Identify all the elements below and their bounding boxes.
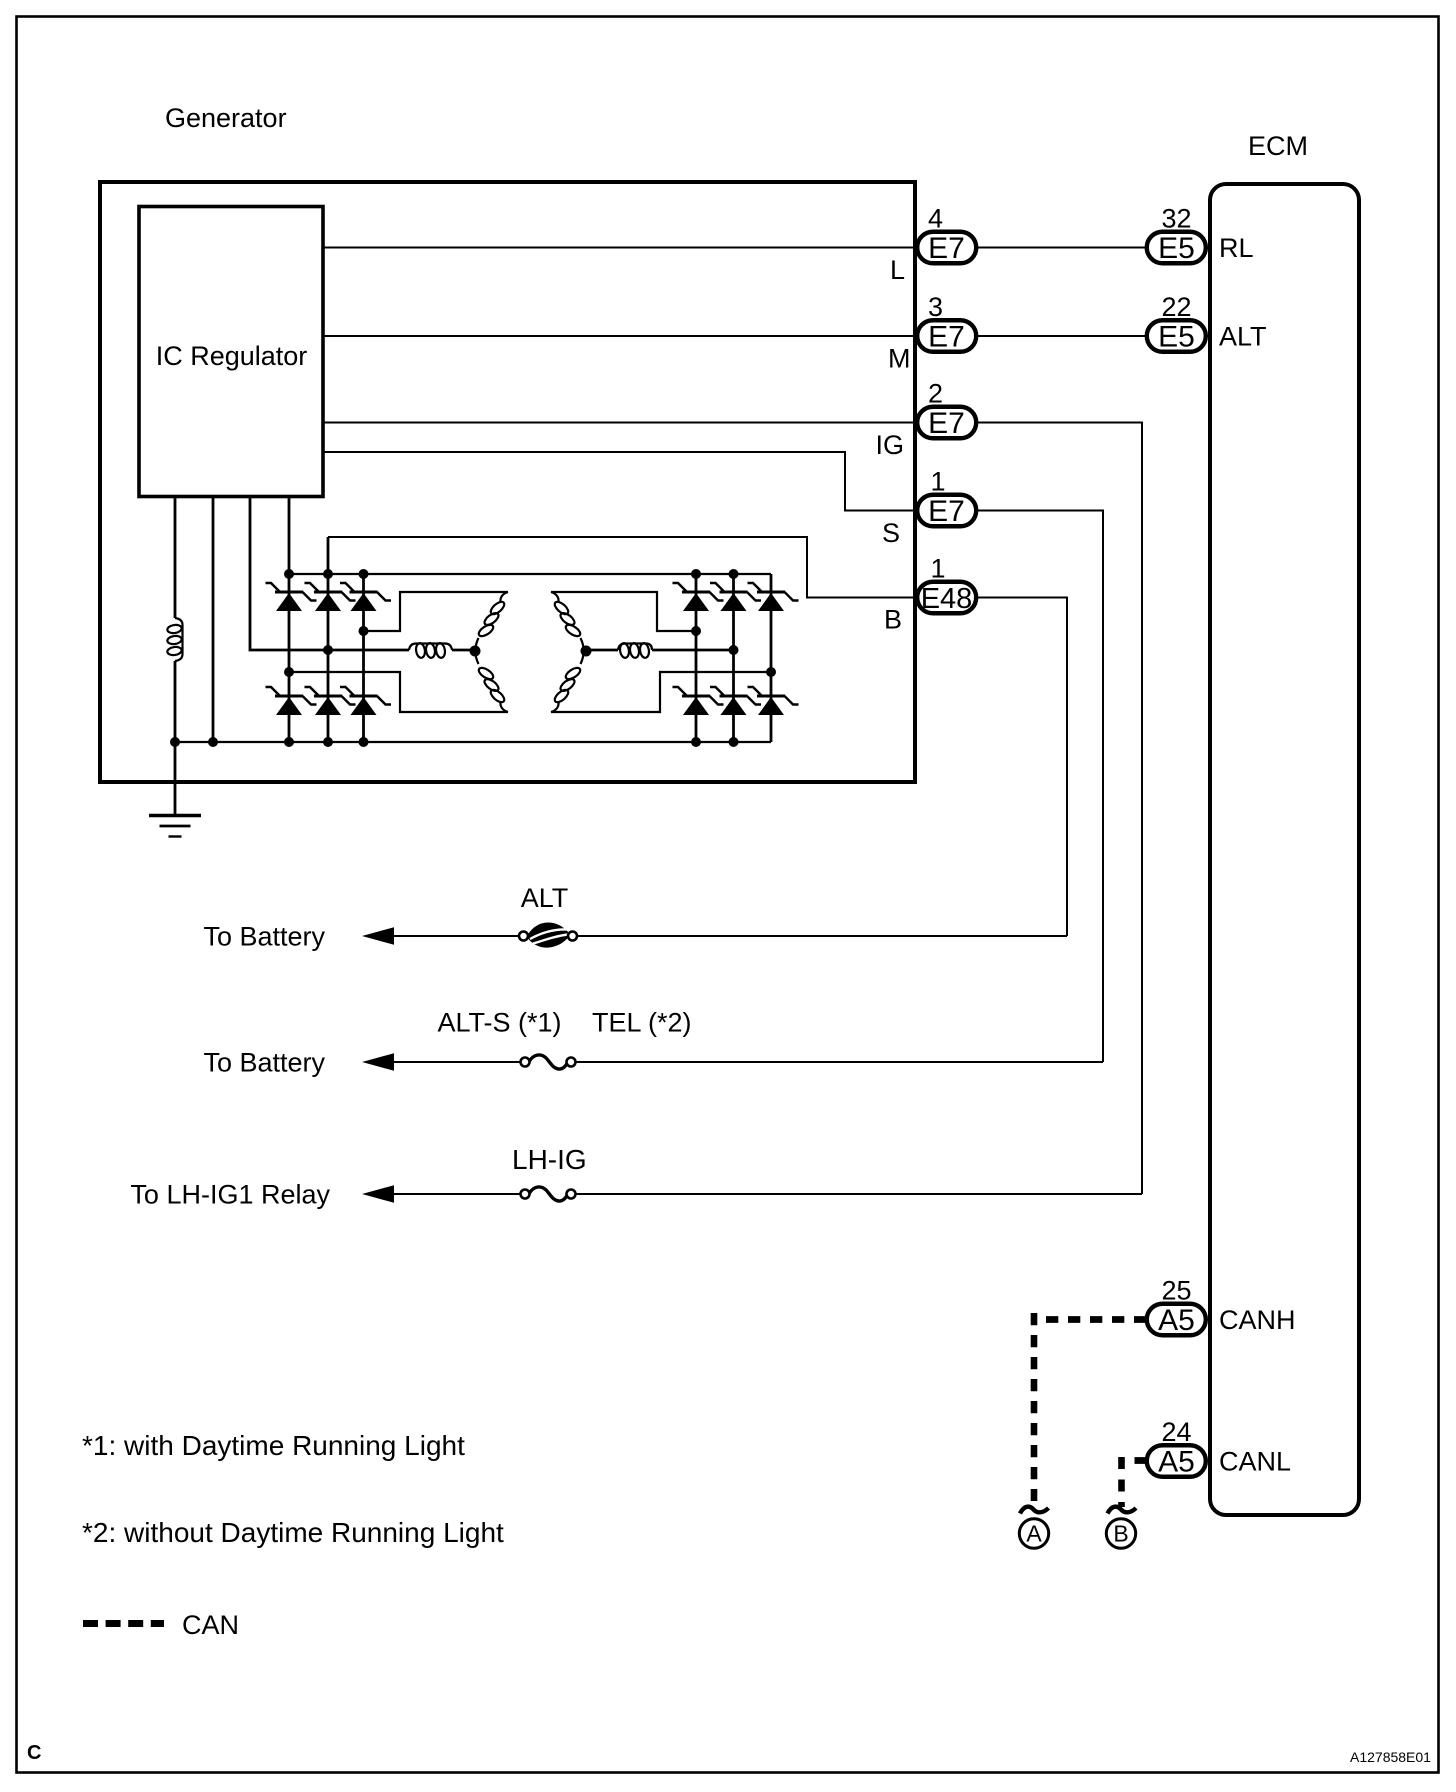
svg-text:ALT: ALT: [521, 883, 569, 913]
svg-text:4: 4: [928, 204, 943, 234]
svg-text:To LH-IG1 Relay: To LH-IG1 Relay: [130, 1180, 330, 1210]
svg-text:A5: A5: [1158, 1304, 1195, 1337]
svg-text:L: L: [890, 255, 905, 285]
svg-text:E48: E48: [921, 583, 973, 615]
svg-text:24: 24: [1162, 1417, 1192, 1447]
svg-text:A5: A5: [1158, 1446, 1195, 1479]
svg-text:A: A: [1026, 1521, 1042, 1547]
svg-text:1: 1: [931, 554, 946, 584]
svg-text:25: 25: [1162, 1276, 1192, 1306]
svg-text:ALT-S (*1): ALT-S (*1): [438, 1008, 562, 1038]
svg-text:Generator: Generator: [165, 103, 287, 133]
svg-text:S: S: [882, 518, 900, 548]
svg-text:*1: with Daytime Running Light: *1: with Daytime Running Light: [82, 1430, 465, 1461]
svg-text:IG: IG: [875, 430, 904, 460]
svg-text:1: 1: [931, 467, 946, 497]
svg-text:CAN: CAN: [182, 1610, 239, 1640]
svg-text:22: 22: [1162, 292, 1192, 322]
svg-text:CANH: CANH: [1219, 1305, 1296, 1335]
svg-text:C: C: [27, 1742, 41, 1764]
svg-text:*2: without Daytime Running Li: *2: without Daytime Running Light: [82, 1517, 504, 1548]
svg-text:ALT: ALT: [1219, 322, 1267, 352]
svg-text:ECM: ECM: [1248, 131, 1308, 161]
svg-text:To Battery: To Battery: [203, 1048, 325, 1078]
svg-text:E5: E5: [1158, 232, 1195, 265]
svg-text:B: B: [884, 605, 902, 635]
svg-text:TEL (*2): TEL (*2): [592, 1008, 692, 1038]
svg-text:2: 2: [928, 379, 943, 409]
svg-text:To Battery: To Battery: [203, 922, 325, 952]
svg-text:B: B: [1113, 1521, 1128, 1547]
svg-text:3: 3: [928, 292, 943, 322]
svg-text:E7: E7: [928, 407, 965, 440]
svg-text:E7: E7: [928, 321, 965, 354]
svg-text:A127858E01: A127858E01: [1350, 1749, 1431, 1765]
svg-text:RL: RL: [1219, 233, 1254, 263]
svg-text:E7: E7: [928, 495, 965, 528]
svg-text:CANL: CANL: [1219, 1447, 1291, 1477]
svg-text:LH-IG: LH-IG: [512, 1144, 587, 1175]
svg-text:E5: E5: [1158, 321, 1195, 354]
svg-text:E7: E7: [928, 232, 965, 265]
svg-text:32: 32: [1162, 204, 1192, 234]
svg-text:IC Regulator: IC Regulator: [156, 341, 308, 371]
svg-text:M: M: [888, 344, 911, 374]
